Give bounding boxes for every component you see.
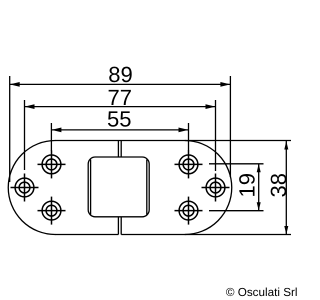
hole right-bottom	[175, 197, 203, 225]
center knuckle square	[88, 157, 149, 217]
hole left-top	[38, 150, 66, 178]
svg-text:19: 19	[235, 173, 260, 197]
hole left-middle	[11, 174, 39, 202]
hole right-top	[175, 150, 203, 178]
hinge left end cap arc	[8, 141, 55, 235]
dimension 89 arrow right	[220, 82, 230, 87]
dimension 77 line	[25, 106, 216, 108]
hole left-bottom	[38, 197, 66, 225]
knuckle inner right edge	[146, 160, 148, 215]
joint line left leaf	[117, 141, 119, 235]
dimension 77 arrow left	[25, 104, 35, 109]
dimension 89 line	[10, 83, 231, 85]
dimension 89 extension line right	[229, 76, 231, 177]
dimension 19 arrow bottom	[257, 202, 261, 211]
hinge bottom edge left segment	[55, 234, 118, 236]
dimension 19 arrow top	[257, 164, 261, 173]
knuckle inner left edge	[90, 160, 92, 215]
hinge right end cap arc	[185, 141, 232, 235]
dimension 19 extension line top	[209, 163, 264, 165]
dimension 77 arrow right	[206, 104, 216, 109]
svg-text:55: 55	[107, 107, 131, 132]
dimension 77 extension line right	[215, 100, 217, 171]
dimension 55 arrow left	[51, 128, 61, 133]
joint line right leaf	[120, 141, 122, 235]
svg-text:89: 89	[108, 62, 132, 87]
svg-text:38: 38	[266, 173, 291, 197]
dimension 55 extension line left	[50, 123, 52, 151]
dimension 38 arrow top	[284, 141, 288, 150]
dimension 38 arrow bottom	[284, 226, 288, 235]
svg-text:© Osculati Srl: © Osculati Srl	[226, 286, 298, 299]
hole right-middle	[202, 174, 230, 202]
hinge top edge + 38 extension line	[55, 140, 291, 142]
dimension 89 extension line left	[9, 76, 11, 182]
dimension 89 arrow left	[10, 82, 20, 87]
dimension 77 extension line left	[24, 100, 26, 170]
dimension 19 extension line bottom	[209, 210, 264, 212]
dimension 19 line	[258, 164, 260, 211]
dimension 38 line	[285, 141, 287, 235]
dimension 55 line	[51, 129, 188, 131]
dimension 55 arrow right	[179, 128, 189, 133]
hinge bottom edge right segment + 38 extension line	[121, 234, 291, 236]
dimension 55 extension line right	[188, 123, 190, 151]
